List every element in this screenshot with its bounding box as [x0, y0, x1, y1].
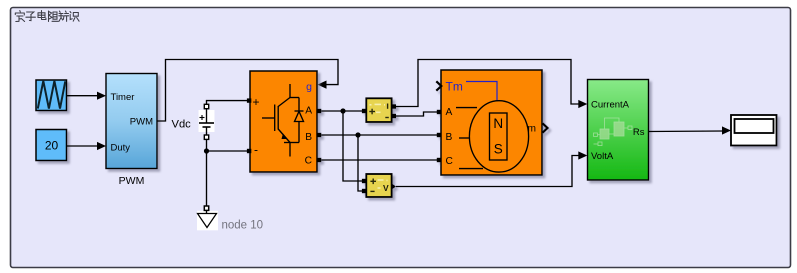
wire 20->Duty [67, 142, 107, 150]
svg-text:A: A [446, 107, 453, 118]
IGBT + diode icon [262, 84, 304, 157]
svg-text:C: C [305, 156, 312, 167]
motor port squares [437, 110, 441, 114]
wire converter C -> motor C [321, 159, 437, 161]
wire v out -> VoltA [396, 151, 587, 186]
wire PWM->g [157, 60, 338, 122]
glyph 定 [15, 11, 24, 22]
PMSM motor block [436, 70, 547, 175]
svg-text:g: g [306, 81, 312, 93]
mini diagram icon [594, 118, 633, 146]
DC voltage source battery [199, 104, 215, 139]
Tm input chevron [436, 81, 441, 90]
wire i - -> motor A [396, 112, 437, 116]
svg-text:PWM: PWM [130, 117, 153, 128]
display block [731, 115, 777, 146]
green subsystem Rs identification [588, 80, 649, 181]
wire battery - -> ground and converter - [204, 139, 247, 206]
motor ellipse icon [469, 101, 528, 172]
title 定子电阻辨识 (hand-drawn glyphs) [15, 11, 79, 22]
svg-text:S: S [494, 142, 503, 157]
ground node 10 [197, 206, 218, 230]
wire source->Timer [67, 92, 107, 100]
current measurement block i [362, 98, 396, 122]
glyph 辨 [59, 11, 69, 21]
blue Tm lead [466, 82, 497, 102]
wire battery + -> converter + [207, 101, 248, 105]
svg-text:C: C [446, 156, 453, 167]
svg-text:Duty: Duty [111, 143, 131, 154]
wire i signal -> CurrentA [396, 60, 587, 109]
svg-text:N: N [493, 116, 503, 131]
svg-text:B: B [446, 132, 453, 143]
svg-text:20: 20 [45, 139, 59, 153]
wire converter A -> current meas [321, 108, 362, 113]
svg-text:VoltA: VoltA [591, 151, 614, 162]
branch B -> voltmeter - [358, 135, 362, 191]
converter block (IGBT bridge) [247, 71, 321, 172]
svg-text:Tm: Tm [446, 80, 463, 94]
wire converter B -> motor B [321, 132, 437, 137]
voltage measurement block v [362, 174, 396, 197]
glyph 电 [38, 11, 46, 20]
svg-text:A: A [305, 106, 312, 117]
branch A -> voltmeter + [343, 111, 362, 181]
glyph 子 [26, 12, 36, 21]
constant block 20 [36, 130, 67, 161]
svg-text:node 10: node 10 [222, 220, 264, 232]
svg-text:CurrentA: CurrentA [591, 100, 630, 111]
blocks and wires are appended below [36, 60, 777, 232]
svg-text:Vdc: Vdc [172, 119, 192, 131]
subsystem PWM [106, 74, 157, 169]
svg-text:B: B [305, 132, 312, 143]
svg-text:-: - [254, 143, 258, 157]
svg-text:V: V [383, 183, 389, 193]
svg-text:PWM: PWM [119, 175, 145, 187]
converter port squares [247, 98, 251, 102]
glyph 识 [70, 12, 79, 22]
m output chevron [543, 123, 548, 132]
glyph 阻 [49, 11, 59, 22]
svg-text:Timer: Timer [111, 92, 135, 103]
triangle-wave source block [36, 80, 67, 111]
svg-text:Rs: Rs [633, 127, 645, 138]
svg-text:+: + [253, 95, 260, 109]
wire Rs -> display [649, 126, 732, 134]
